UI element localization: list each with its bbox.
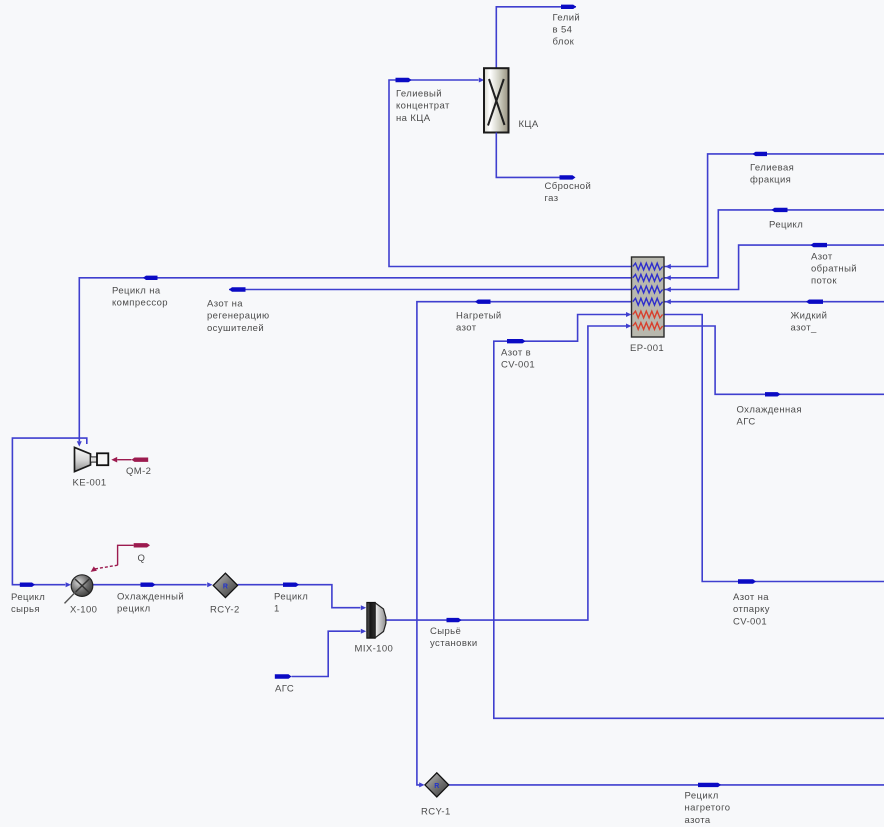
wire: EP-001 row1 right to Гелиевая фракция xyxy=(664,154,884,267)
svg-text:Сброснойгаз: Сброснойгаз xyxy=(545,181,592,204)
svg-text:Гелиеваяфракция: Гелиеваяфракция xyxy=(750,163,794,186)
stream arrow Рецикл нагретого азота xyxy=(698,783,721,787)
label KE-001 xyxy=(73,477,107,488)
label Азот обратный поток xyxy=(811,251,857,286)
label Гелиевый концентрат на КЦА xyxy=(396,89,450,124)
heat exchanger EP-001 xyxy=(632,257,671,337)
wire: EP-001 row3 left outlet xyxy=(229,289,632,291)
energy stream Q into X-100 xyxy=(91,543,150,572)
stream arrow Охлажденный рецикл xyxy=(141,583,156,587)
stream arrow Рецикл на компрессор xyxy=(143,276,158,280)
label Азот на регенерацию осушителей xyxy=(207,299,269,334)
stream arrow Гелиевая фракция xyxy=(753,152,768,156)
svg-text:QM-2: QM-2 xyxy=(126,466,151,477)
wire: EP-001 row1 left outlet to КЦА feed xyxy=(389,78,632,267)
stream arrow Сбросной газ xyxy=(560,175,576,179)
wire: EP-001 row6 right outlet to Охлажденная АГС xyxy=(664,326,884,394)
svg-text:АГС: АГС xyxy=(275,683,294,694)
svg-text:Рецикл накомпрессор: Рецикл накомпрессор xyxy=(112,286,168,309)
svg-text:Азотобратныйпоток: Азотобратныйпоток xyxy=(811,251,857,286)
wire: АГС feed to MIX-100 lower inlet xyxy=(292,629,367,677)
svg-text:R: R xyxy=(223,584,228,591)
wire: EP-001 row4 left outlet down to RCY-1 xyxy=(417,302,632,788)
stream arrow Азот на регенерацию осушителей xyxy=(229,287,246,291)
stream arrow Азот обратный поток xyxy=(811,243,828,247)
svg-text:Q: Q xyxy=(138,553,146,564)
label Рецикл сырья xyxy=(11,592,45,615)
svg-text:Рециклсырья: Рециклсырья xyxy=(11,592,45,615)
svg-text:KE-001: KE-001 xyxy=(73,477,107,488)
stream arrow Охлажденная АГС xyxy=(765,392,781,396)
label Рецикл xyxy=(769,220,803,231)
svg-text:MIX-100: MIX-100 xyxy=(355,644,394,655)
wire: X-100 outlet to RCY-2 xyxy=(93,582,213,587)
svg-text:ОхлажденнаяАГС: ОхлажденнаяАГС xyxy=(737,405,802,428)
label Сырьё установки xyxy=(430,626,478,649)
label Азот в CV-001 xyxy=(501,347,535,370)
wire: EP-001 row2 right to Рецикл xyxy=(664,210,884,278)
svg-text:Гелийв 54блок: Гелийв 54блок xyxy=(553,12,581,47)
label Рецикл на компрессор xyxy=(112,286,168,309)
svg-text:EP-001: EP-001 xyxy=(630,343,664,354)
svg-text:Гелиевыйконцентратна КЦА: Гелиевыйконцентратна КЦА xyxy=(396,89,450,124)
stream arrow Гелий в 54 блок xyxy=(561,5,576,9)
label Азот на отпарку CV-001 xyxy=(733,592,770,627)
stream arrow Рецикл 1 xyxy=(283,583,299,587)
mixer MIX-100 xyxy=(367,603,386,639)
recycle block RCY-2 xyxy=(213,573,237,597)
svg-text:RCY-2: RCY-2 xyxy=(210,604,240,615)
svg-text:RCY-1: RCY-1 xyxy=(421,807,451,818)
stream arrow Рецикл сырья xyxy=(20,583,35,587)
stream arrow Гелиевый концентрат на КЦА xyxy=(396,78,412,82)
wire: EP-001 row3 right to Азот обратный поток xyxy=(664,245,884,289)
label MIX-100 xyxy=(355,644,394,655)
svg-text:Азот вCV-001: Азот вCV-001 xyxy=(501,347,535,370)
wire: RCY-2 outlet to MIX-100 upper inlet (Рецикл 1) xyxy=(238,585,367,611)
svg-text:Охлажденныйрецикл: Охлажденныйрецикл xyxy=(117,592,184,615)
svg-text:Сырьёустановки: Сырьёустановки xyxy=(430,626,478,649)
svg-text:КЦА: КЦА xyxy=(519,119,539,130)
wire: MIX-100 outlet Сырьё установки up to EP-001 row6 xyxy=(386,324,632,621)
wire: КЦА bottom outlet to Сбросной газ xyxy=(496,133,559,178)
wire: EP-001 row5 right outlet to Азот на отпарку xyxy=(664,315,884,582)
label Охлажденный рецикл xyxy=(117,592,184,615)
svg-text:Азот наотпаркуCV-001: Азот наотпаркуCV-001 xyxy=(733,592,770,627)
recycle block RCY-1 xyxy=(425,773,449,797)
stream arrow Нагретый азот xyxy=(475,300,491,304)
label Рецикл 1 xyxy=(274,592,308,615)
stream arrow Азот в CV-001 xyxy=(507,339,526,343)
svg-text:Жидкийазот_: Жидкийазот_ xyxy=(791,311,828,334)
label RCY-1 xyxy=(421,807,451,818)
svg-text:R: R xyxy=(434,783,439,790)
cooler X-100 xyxy=(65,575,93,604)
label Жидкий азот_ xyxy=(791,311,828,334)
label Сбросной газ xyxy=(545,181,592,204)
label Рецикл нагретого азота xyxy=(685,791,731,826)
label Q xyxy=(138,553,146,564)
energy stream QM-2 into KE-001 xyxy=(111,457,148,463)
label АГС xyxy=(275,683,294,694)
svg-text:Азот нарегенерациюосушителей: Азот нарегенерациюосушителей xyxy=(207,299,269,334)
svg-text:X-100: X-100 xyxy=(70,604,97,615)
wire: KE-001 outlet loop to X-100 (Рецикл сырья) xyxy=(12,438,86,587)
wire: EP-001 row2 left outlet down to KE-001 inlet xyxy=(77,278,632,447)
adsorber КЦА xyxy=(484,68,509,132)
svg-text:Рецикл: Рецикл xyxy=(769,220,803,231)
label Нагретый азот xyxy=(456,311,502,334)
label Гелиевая фракция xyxy=(750,163,794,186)
label КЦА xyxy=(519,119,539,130)
stream arrow Рецикл xyxy=(772,208,788,212)
expander KE-001 xyxy=(75,447,109,471)
svg-text:Рецикл1: Рецикл1 xyxy=(274,592,308,615)
wire: Жидкий азот inlet to EP-001 row4 xyxy=(664,301,884,303)
stream arrow Азот на отпарку CV-001 xyxy=(738,579,756,583)
label RCY-2 xyxy=(210,604,240,615)
label Гелий в 54 блок xyxy=(553,12,581,47)
label X-100 xyxy=(70,604,97,615)
wire: Азот в CV-001 inlet to EP-001 row5 xyxy=(494,312,884,718)
wire: RCY-1 outlet Рецикл нагретого азота xyxy=(449,784,884,786)
wire: КЦА top outlet to Гелий в 54 блок xyxy=(496,7,576,68)
label QM-2 xyxy=(126,466,151,477)
stream arrow Жидкий азот xyxy=(806,300,823,304)
svg-text:Рециклнагретогоазота: Рециклнагретогоазота xyxy=(685,791,731,826)
svg-text:Нагретыйазот: Нагретыйазот xyxy=(456,311,502,334)
stream arrow Сырьё установки xyxy=(447,618,462,622)
stream arrow АГС xyxy=(275,674,292,678)
label EP-001 xyxy=(630,343,664,354)
label Охлажденная АГС xyxy=(737,405,802,428)
